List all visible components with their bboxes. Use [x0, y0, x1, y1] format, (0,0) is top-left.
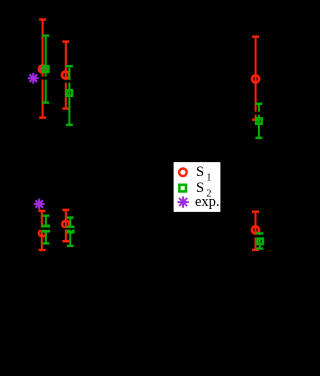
- legend box: [173, 162, 221, 213]
- S2 green error bars: [42, 36, 263, 249]
- band bottom-right: [251, 235, 265, 237]
- exp asterisk A1: [28, 73, 39, 84]
- exp asterisk A2 (bottom-left): [34, 199, 45, 210]
- svg-text:1: 1: [206, 173, 211, 184]
- errorbar S2 top-left pair2: [66, 66, 73, 125]
- errorbar S2 bottom-right: [256, 233, 263, 248]
- errorbar S1 bottom-right: [252, 212, 259, 250]
- errorbar S1 top-right: [252, 37, 259, 120]
- errorbar S1 bottom-left pair2: [62, 210, 69, 241]
- errorbar S1 top-left pair1: [39, 20, 46, 118]
- band top-left pair1: [39, 77, 50, 80]
- errorbar S2 top-left pair1: [42, 36, 49, 103]
- svg-text:exp.: exp.: [195, 194, 220, 210]
- black level bands (invisible lines crossing coloured bars): [39, 77, 265, 238]
- svg-text:S: S: [196, 164, 204, 180]
- errorbar S2 bottom-left pair2: [67, 218, 74, 246]
- legend S2 marker: [179, 185, 186, 192]
- S1 red error bars: [38, 20, 259, 251]
- errorbar S2 top-right: [255, 104, 262, 138]
- errorbar S2 bottom-left pair1: [42, 216, 49, 244]
- exp asterisk hidden under S1 marker (top-left pair1): [38, 64, 48, 74]
- band top-right: [251, 112, 264, 115]
- band bottom-left pair1: [39, 228, 52, 230]
- legend exp marker: [177, 196, 188, 207]
- errorbar S1 top-left pair2: [62, 42, 69, 109]
- band bottom-left pair2: [62, 228, 75, 230]
- errorbar S1 bottom-left pair1: [38, 211, 46, 250]
- legend S1 marker: [179, 169, 187, 177]
- band top-left pair2: [62, 80, 74, 83]
